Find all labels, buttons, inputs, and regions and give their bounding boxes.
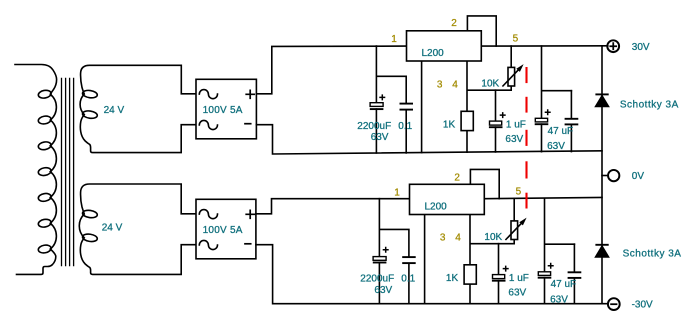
svg-text:47 uF: 47 uF [551, 279, 577, 290]
svg-text:0V: 0V [632, 171, 645, 182]
svg-text:-30V: -30V [632, 299, 653, 310]
svg-text:47 uF: 47 uF [548, 126, 574, 137]
svg-text:0.1: 0.1 [398, 121, 412, 132]
svg-text:100V 5A: 100V 5A [203, 105, 243, 116]
svg-text:2: 2 [454, 173, 460, 184]
svg-text:63V: 63V [550, 295, 568, 306]
svg-text:4: 4 [455, 233, 461, 244]
svg-text:1: 1 [391, 34, 397, 45]
svg-text:Schottky 3A: Schottky 3A [620, 100, 679, 111]
svg-text:3: 3 [437, 79, 443, 90]
svg-text:30V: 30V [632, 42, 650, 53]
svg-text:24 V: 24 V [104, 105, 125, 116]
svg-text:1: 1 [394, 188, 400, 199]
svg-text:L200: L200 [425, 202, 448, 213]
svg-text:5: 5 [516, 187, 522, 198]
svg-text:1K: 1K [446, 273, 459, 284]
svg-text:Schottky 3A: Schottky 3A [623, 249, 682, 260]
svg-text:10K: 10K [481, 78, 499, 89]
svg-text:5: 5 [513, 34, 519, 45]
svg-text:24 V: 24 V [102, 223, 123, 234]
svg-text:10K: 10K [484, 232, 502, 243]
svg-text:1K: 1K [443, 120, 456, 131]
svg-text:1 uF: 1 uF [506, 119, 526, 130]
svg-text:4: 4 [452, 79, 458, 90]
svg-text:63V: 63V [371, 132, 389, 143]
svg-text:63V: 63V [547, 141, 565, 152]
svg-text:2200uF: 2200uF [360, 274, 394, 285]
svg-text:63V: 63V [505, 134, 523, 145]
svg-text:L200: L200 [422, 48, 445, 59]
svg-text:2200uF: 2200uF [357, 121, 391, 132]
svg-text:0.1: 0.1 [401, 274, 415, 285]
svg-text:100V 5A: 100V 5A [203, 225, 243, 236]
svg-text:63V: 63V [508, 288, 526, 299]
svg-text:3: 3 [440, 233, 446, 244]
svg-text:2: 2 [451, 18, 457, 29]
svg-text:63V: 63V [374, 285, 392, 296]
svg-text:1 uF: 1 uF [509, 273, 529, 284]
